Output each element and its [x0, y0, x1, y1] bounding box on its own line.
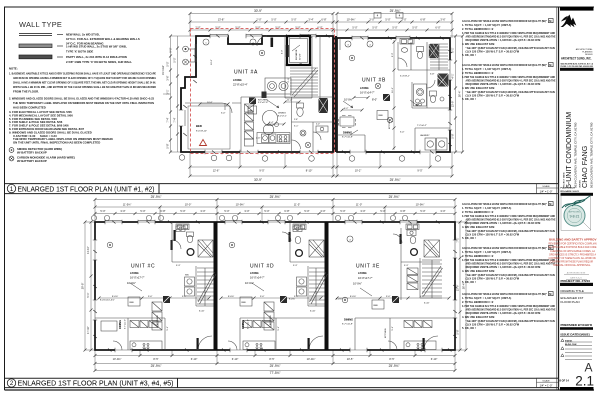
svg-text:A: A [584, 361, 592, 375]
svg-text:5'-5": 5'-5" [165, 61, 169, 66]
svg-text:25'-9⅛": 25'-9⅛" [389, 364, 400, 368]
svg-text:1/4" = 1'-0": 1/4" = 1'-0" [540, 384, 553, 388]
svg-text:LIVING: LIVING [130, 271, 139, 275]
svg-text:6'-0": 6'-0" [282, 50, 284, 55]
svg-text:9'-7"x11'-9": 9'-7"x11'-9" [248, 319, 250, 329]
svg-text:PLAN CHECK: PLAN CHECK [561, 187, 576, 190]
svg-text:NOTE:: NOTE: [9, 67, 18, 71]
svg-text:3'-6": 3'-6" [440, 18, 445, 22]
svg-text:5634 CLOVERLY AVE, TEMPLE CITY: 5634 CLOVERLY AVE, TEMPLE CITY, CA 91780 [574, 122, 578, 188]
svg-text:10'-0": 10'-0" [211, 59, 213, 65]
svg-text:8'-0⅛"x10'-5⅛": 8'-0⅛"x10'-5⅛" [100, 300, 115, 302]
svg-text:5'-0": 5'-0" [380, 209, 385, 213]
svg-text:2. WINDOWS AND GLAZED DOORS SH: 2. WINDOWS AND GLAZED DOORS SHALL BE DUA… [9, 97, 154, 101]
svg-text:NEW WALL 2x WD STUD,: NEW WALL 2x WD STUD, [66, 32, 100, 36]
svg-text:ORDINANCES IS STRICTLY PROHIBI: ORDINANCES IS STRICTLY PROHIBITED A [549, 253, 596, 257]
svg-text:6'-10": 6'-10" [424, 303, 430, 305]
svg-text:6'-8": 6'-8" [160, 209, 165, 213]
svg-text:8'-5": 8'-5" [389, 357, 394, 361]
svg-text:77'-5⅛": 77'-5⅛" [270, 371, 281, 375]
svg-text:5'-0": 5'-0" [340, 209, 345, 213]
svg-text:WIDTH SHALL BE 20 IN. MIN., AN: WIDTH SHALL BE 20 IN. MIN., AND BOTTOM O… [13, 85, 156, 89]
svg-text:8'-0⅛": 8'-0⅛" [289, 299, 295, 301]
svg-text:5'-0": 5'-0" [372, 26, 377, 30]
svg-text:CONFORM FROM THESE PLANS REQUI: CONFORM FROM THESE PLANS REQUIR [549, 260, 593, 264]
svg-text:10'-9⅛": 10'-9⅛" [347, 18, 356, 22]
svg-text:11'-10": 11'-10" [86, 246, 90, 254]
svg-text:8'-0⅛": 8'-0⅛" [336, 299, 342, 301]
svg-text:8'-0⅛": 8'-0⅛" [112, 296, 118, 298]
svg-text:UNIT #A: UNIT #A [234, 70, 258, 76]
svg-text:LIVING: LIVING [233, 78, 242, 82]
svg-text:3'-0": 3'-0" [440, 209, 445, 213]
svg-text:2'-8": 2'-8" [294, 119, 298, 121]
svg-text:5'-1": 5'-1" [392, 326, 394, 331]
svg-text:25'-9⅛": 25'-9⅛" [270, 195, 281, 199]
svg-text:9'-5": 9'-5" [259, 169, 264, 173]
svg-text:LIVING: LIVING [250, 271, 259, 275]
svg-text:5'-0": 5'-0" [352, 26, 357, 30]
svg-text:UNIT #C: UNIT #C [131, 264, 155, 270]
svg-text:16'-0"x17'-7": 16'-0"x17'-7" [130, 276, 145, 280]
svg-text:CHAO FANG: CHAO FANG [580, 145, 589, 188]
svg-text:9-8-21: 9-8-21 [570, 215, 580, 219]
svg-text:2'-6": 2'-6" [256, 138, 261, 140]
svg-text:9'-7"x11'-9": 9'-7"x11'-9" [342, 137, 353, 139]
svg-text:DINING: DINING [241, 320, 245, 329]
svg-text:3'-0": 3'-0" [260, 296, 265, 298]
svg-text:11'-0": 11'-0" [287, 100, 293, 102]
svg-text:3'-0": 3'-0" [148, 296, 153, 298]
svg-text:9'-0"x9'-10": 9'-0"x9'-10" [196, 131, 207, 133]
svg-text:REF.: REF. [379, 115, 384, 117]
svg-text:DRAWING TITLE: DRAWING TITLE [561, 289, 584, 293]
svg-text:5'-0": 5'-0" [291, 18, 296, 22]
svg-text:5'-0": 5'-0" [385, 18, 390, 22]
svg-text:5'-3": 5'-3" [293, 265, 298, 267]
svg-text:DINING: DINING [118, 320, 122, 329]
svg-text:PROJECT NO. #7210: PROJECT NO. #7210 [561, 279, 591, 283]
svg-text:ARCHITECT SUNG, INC.: ARCHITECT SUNG, INC. [561, 57, 592, 61]
svg-text:LAUNDRY: LAUNDRY [420, 134, 430, 137]
svg-text:6'-8": 6'-8" [284, 209, 289, 213]
svg-text:SCALE: SCALE [542, 185, 550, 188]
svg-text:5'-0": 5'-0" [224, 209, 229, 213]
svg-text:6'-10": 6'-10" [199, 311, 205, 313]
svg-text:5'-0": 5'-0" [392, 26, 397, 30]
svg-text:CHECKING OF APPLICABLE CODES,: CHECKING OF APPLICABLE CODES, LA [550, 249, 595, 253]
svg-text:DINING: DINING [344, 318, 353, 322]
svg-text:13'-9": 13'-9" [455, 285, 459, 292]
svg-text:10'-2": 10'-2" [355, 169, 362, 173]
svg-text:3'-6": 3'-6" [165, 75, 169, 80]
svg-text:2'-0": 2'-0" [256, 18, 261, 22]
svg-text:BUILDING AND SAFETY APPROV: BUILDING AND SAFETY APPROV [549, 238, 597, 242]
svg-text:6'-2": 6'-2" [344, 108, 349, 110]
svg-text:9'-5": 9'-5" [169, 47, 173, 52]
svg-text:ENLARGED 1ST FLOOR PLAN (UNIT: ENLARGED 1ST FLOOR PLAN (UNIT #3, #4, #5… [18, 381, 174, 388]
svg-text:30'-9": 30'-9" [254, 9, 262, 13]
svg-text:9'-7"x11'-9": 9'-7"x11'-9" [125, 319, 127, 329]
svg-text:5'-4": 5'-4" [269, 122, 274, 124]
svg-text:8'-0": 8'-0" [372, 98, 377, 102]
svg-text:7'-2"x6'-2": 7'-2"x6'-2" [417, 125, 427, 127]
svg-text:SPECIAL OFFICIAL APPROVAL.: SPECIAL OFFICIAL APPROVAL. [553, 263, 591, 267]
svg-text:3'-0": 3'-0" [244, 209, 249, 213]
svg-text:10'-9⅛": 10'-9⅛" [416, 203, 425, 207]
svg-text:3'-1": 3'-1" [165, 89, 169, 94]
svg-text:1-HR WD STUD WALL, 2x STUD W/: 1-HR WD STUD WALL, 2x STUD W/ 5/8" GWB, [66, 45, 127, 49]
svg-text:13'-9": 13'-9" [450, 101, 454, 108]
svg-text:5'-5": 5'-5" [172, 57, 176, 62]
svg-text:7'-4": 7'-4" [172, 117, 176, 122]
svg-text:FLOOR PLAN: FLOOR PLAN [561, 300, 580, 304]
svg-text:SHALL HAVE A MINIMUM NET CLEAR: SHALL HAVE A MINIMUM NET CLEAR OPENING O… [13, 81, 156, 85]
svg-text:R19-04218 9-8-21: R19-04218 9-8-21 [561, 190, 580, 193]
svg-text:FROM THE FLOOR.: FROM THE FLOOR. [13, 90, 39, 94]
svg-text:5'-0": 5'-0" [271, 18, 276, 22]
svg-text:9'-3"x17'-8": 9'-3"x17'-8" [258, 102, 268, 104]
svg-text:3'-0": 3'-0" [221, 113, 226, 115]
svg-text:10'-0⅛": 10'-0⅛" [344, 98, 353, 102]
svg-text:5'-0": 5'-0" [420, 209, 425, 213]
svg-text:16'-0"x17'-7": 16'-0"x17'-7" [358, 276, 373, 280]
svg-text:KITCHEN: KITCHEN [270, 315, 272, 325]
svg-text:SCALE: SCALE [542, 379, 550, 382]
svg-text:PARTY WALL, 2x 2X4 WITH R-13 I: PARTY WALL, 2x 2X4 WITH R-13 INSULATION [66, 55, 127, 59]
svg-text:UP: UP [299, 64, 303, 66]
svg-text:AUTHORIZED SIGN: AUTHORIZED SIGN [567, 272, 586, 275]
svg-text:10'-0⅛": 10'-0⅛" [245, 281, 254, 285]
svg-text:11'-0": 11'-0" [356, 203, 362, 207]
svg-text:5'-1": 5'-1" [86, 292, 90, 297]
svg-text:10'-5": 10'-5" [347, 357, 354, 361]
svg-text:10'-0⅛": 10'-0⅛" [307, 357, 316, 361]
svg-text:8'-0"x7'-1": 8'-0"x7'-1" [278, 115, 287, 117]
svg-text:16'-0"x14'-7": 16'-0"x14'-7" [250, 276, 265, 280]
svg-text:5'-8": 5'-8" [450, 133, 454, 138]
svg-text:3'-0": 3'-0" [200, 209, 205, 213]
svg-text:7'-4": 7'-4" [165, 117, 169, 122]
svg-text:8'-5": 8'-5" [269, 357, 274, 361]
svg-text:THE NFRC TEMPORARY LABEL DISPL: THE NFRC TEMPORARY LABEL DISPLAYED ON WI… [13, 101, 154, 105]
svg-text:11'-5⅛": 11'-5⅛" [123, 203, 132, 207]
svg-text:3'-8": 3'-8" [430, 74, 435, 76]
svg-text:3'-0": 3'-0" [120, 209, 125, 213]
svg-text:5'-0": 5'-0" [400, 132, 405, 134]
svg-text:10'-0": 10'-0" [185, 203, 192, 207]
svg-text:13'-8": 13'-8" [218, 18, 225, 22]
svg-text:31'-11⅛": 31'-11⅛" [161, 65, 165, 75]
svg-text:25'-9⅛": 25'-9⅛" [389, 195, 400, 199]
svg-text:PREPARED BY/CHK'D: PREPARED BY/CHK'D [561, 323, 593, 327]
svg-text:5'-3": 5'-3" [176, 265, 181, 267]
svg-text:10'-0⅛": 10'-0⅛" [127, 281, 136, 285]
svg-text:29'-8": 29'-8" [80, 283, 84, 290]
svg-text:BED: BED [196, 124, 202, 128]
svg-text:DINING: DINING [278, 113, 286, 115]
svg-text:8'-5": 8'-5" [153, 357, 158, 361]
svg-text:5'-0": 5'-0" [140, 209, 145, 213]
svg-text:2-5/8" GWB TYPE 'X' ON BOTH SI: 2-5/8" GWB TYPE 'X' ON BOTH SIDES, 1HR W… [66, 60, 132, 64]
svg-text:UNIT #E: UNIT #E [356, 264, 380, 270]
svg-text:ENLARGED 1ST FLOOR PLAN (UNIT: ENLARGED 1ST FLOOR PLAN (UNIT #1, #2) [18, 186, 155, 193]
svg-text:REF.: REF. [130, 302, 135, 304]
svg-text:ELEVATOR: ELEVATOR [295, 49, 298, 60]
svg-text:16'-0"x14'-7": 16'-0"x14'-7" [360, 91, 375, 95]
svg-text:ON THE UNIT UNTIL FINAL INSPEC: ON THE UNIT UNTIL FINAL INSPECTION HAS B… [13, 141, 100, 145]
svg-text:2.1: 2.1 [575, 374, 594, 389]
svg-text:5'-8": 5'-8" [455, 329, 459, 334]
svg-text:HAS BEEN COMPLETED: HAS BEEN COMPLETED [13, 106, 46, 110]
svg-text:3'-0": 3'-0" [360, 209, 365, 213]
svg-text:5'-3": 5'-3" [392, 53, 394, 58]
svg-text:3'-4": 3'-4" [308, 18, 313, 22]
svg-text:8'-10": 8'-10" [306, 169, 313, 173]
svg-text:5'-0": 5'-0" [316, 124, 320, 126]
svg-text:REF.: REF. [374, 305, 379, 307]
svg-text:10'-0⅛": 10'-0⅛" [353, 282, 362, 286]
svg-text:5'-0": 5'-0" [180, 209, 185, 213]
svg-text:5'-1": 5'-1" [278, 326, 280, 331]
svg-text:9'-5": 9'-5" [417, 169, 422, 173]
svg-text:17'-10": 17'-10" [86, 326, 90, 334]
svg-text:6'-0": 6'-0" [435, 26, 440, 30]
svg-text:26'-4": 26'-4" [458, 91, 462, 98]
svg-text:1/4" = 1'-0": 1/4" = 1'-0" [540, 189, 553, 193]
svg-text:5'-3": 5'-3" [404, 265, 409, 267]
svg-text:REVIEWED FOR CERTIFICATION COM: REVIEWED FOR CERTIFICATION COMPLIAN [549, 242, 597, 246]
svg-text:22'-8"x15'-4": 22'-8"x15'-4" [233, 83, 248, 87]
svg-text:5'-0": 5'-0" [304, 209, 309, 213]
svg-text:60"x79": 60"x79" [300, 53, 302, 60]
svg-text:1. BASEMENT, HABITABLE ATTICS: 1. BASEMENT, HABITABLE ATTICS AND EVERY … [9, 72, 156, 76]
svg-text:5'-0": 5'-0" [412, 26, 417, 30]
svg-text:16"O.C. FOR ALL EXTERIOR WALL: 16"O.C. FOR ALL EXTERIOR WALL & BEARING … [66, 37, 140, 41]
svg-text:6'-10": 6'-10" [191, 357, 198, 361]
svg-text:AND RESCUE OPENING HAVING A MI: AND RESCUE OPENING HAVING A MINIMUM NET … [13, 76, 156, 80]
svg-text:11'-5": 11'-5" [294, 203, 300, 207]
svg-text:6'-8": 6'-8" [420, 18, 425, 22]
svg-text:25'-9⅛": 25'-9⅛" [151, 195, 162, 199]
svg-text:6'-8": 6'-8" [400, 209, 405, 213]
svg-text:6'-10": 6'-10" [431, 357, 438, 361]
svg-text:LIVING: LIVING [360, 86, 369, 90]
svg-text:UNIT #B: UNIT #B [362, 78, 386, 84]
svg-text:ISSUE DATE03/08/21: ISSUE DATE03/08/21 [561, 333, 591, 337]
svg-text:5'-1": 5'-1" [294, 126, 299, 128]
svg-text:5'-0": 5'-0" [264, 209, 269, 213]
svg-text:25'-9⅛": 25'-9⅛" [270, 364, 281, 368]
svg-text:TYPE 'X' BOTH SIDE: TYPE 'X' BOTH SIDE [66, 49, 93, 53]
svg-text:30'-9": 30'-9" [254, 178, 262, 182]
svg-text:9'-7"x11'-9": 9'-7"x11'-9" [342, 324, 353, 326]
svg-text:CONTRARY OF THESE PLANS. ALL W: CONTRARY OF THESE PLANS. ALL WORK MU [549, 256, 597, 260]
svg-text:25'-9¾": 25'-9¾" [390, 178, 401, 182]
svg-text:5'-8": 5'-8" [165, 143, 169, 148]
svg-text:10'-9⅛": 10'-9⅛" [236, 203, 245, 207]
svg-text:10'-6": 10'-6" [207, 102, 213, 104]
svg-text:W/D: W/D [185, 275, 189, 277]
svg-text:LIVING: LIVING [358, 271, 367, 275]
svg-text:W/ BATTERY BACKUP: W/ BATTERY BACKUP [17, 151, 47, 155]
svg-text:25'-9⅛": 25'-9⅛" [151, 364, 162, 368]
svg-text:REF.: REF. [242, 302, 247, 304]
svg-text:11'-1": 11'-1" [392, 87, 394, 93]
svg-text:KITCHEN: KITCHEN [385, 328, 387, 338]
svg-text:8'-0⅛": 8'-0⅛" [350, 296, 356, 298]
svg-text:W/ BATTERY BACKUP: W/ BATTERY BACKUP [17, 159, 47, 163]
svg-text:APPROVED: APPROVED [569, 211, 581, 214]
svg-text:WALL TYPE: WALL TYPE [19, 20, 62, 29]
svg-text:6'-8": 6'-8" [321, 18, 326, 22]
svg-text:W/ APPLICABLE PORTIONS BUILD A: W/ APPLICABLE PORTIONS BUILD AND CODE [549, 245, 597, 249]
svg-text:DINING: DINING [343, 131, 352, 135]
svg-text:6'-10": 6'-10" [232, 357, 239, 361]
svg-text:6'-1": 6'-1" [450, 47, 454, 52]
svg-text:PHONE: 1-213-700-0000 FAX: 62: PHONE: 1-213-700-0000 FAX: 626-000-0000 [561, 65, 594, 68]
svg-text:3'-0": 3'-0" [386, 296, 391, 298]
svg-text:5'-3"x9'-1": 5'-3"x9'-1" [400, 76, 410, 78]
svg-text:UNIT #D: UNIT #D [250, 264, 274, 270]
svg-text:5'-1": 5'-1" [167, 326, 169, 331]
svg-text:8 OF 14: 8 OF 14 [560, 378, 570, 382]
svg-text:10'-0⅛": 10'-0⅛" [113, 357, 122, 361]
svg-text:6'-10": 6'-10" [310, 311, 316, 313]
svg-text:KITCHEN: KITCHEN [157, 315, 159, 325]
svg-text:5636 CLOVERLY AVE, TEMPLE CITY: 5636 CLOVERLY AVE, TEMPLE CITY, CA 91780 [590, 122, 594, 188]
svg-text:5'-0": 5'-0" [100, 209, 105, 213]
svg-text:8'-0⅛": 8'-0⅛" [228, 296, 234, 298]
svg-text:12'-6": 12'-6" [213, 169, 220, 173]
svg-text:3'-0": 3'-0" [320, 209, 325, 213]
svg-text:5-UNIT CONDOMINIUM: 5-UNIT CONDOMINIUM [566, 112, 573, 188]
